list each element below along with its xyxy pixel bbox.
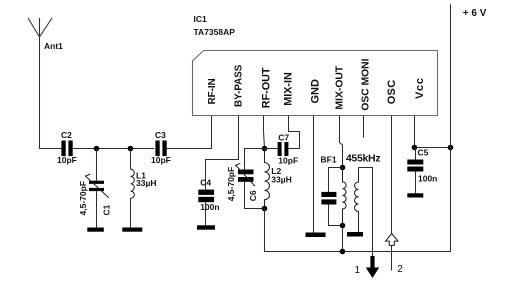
ground (GND pin) [306, 233, 326, 238]
inductor L1 [131, 169, 135, 198]
wire RF-OUT to tank node [264, 116, 265, 149]
node Vcc pin [412, 145, 418, 151]
node tank bottom [262, 206, 268, 212]
wire BF1 cap branch bottom [329, 205, 343, 226]
node +6V rail [448, 145, 454, 151]
node BF1 bottom [340, 223, 346, 229]
svg-text:10pF: 10pF [278, 156, 298, 166]
trimmer capacitor C6 [238, 170, 254, 182]
wire node to L1 [130, 149, 132, 170]
wire BF1 secondary to output 1 [359, 168, 373, 257]
svg-text:MIX-OUT: MIX-OUT [335, 65, 346, 110]
wire pin GND to ground [313, 116, 315, 233]
svg-text:C1: C1 [102, 204, 112, 215]
svg-text:Ant1: Ant1 [44, 41, 63, 51]
wire BY-PASS to C4 [206, 116, 239, 190]
svg-text:4,5-70pF: 4,5-70pF [78, 181, 88, 216]
stub OSC MONI [363, 116, 365, 138]
svg-text:TA7358AP: TA7358AP [194, 27, 236, 37]
svg-text:10pF: 10pF [151, 155, 171, 165]
wire C5 to ground [415, 172, 417, 194]
wire tank top to C6 [245, 149, 265, 170]
wire BF1 bottom to rail [342, 226, 344, 252]
capacitor C3 [155, 141, 166, 157]
svg-text:C6: C6 [248, 190, 258, 201]
wire antenna to C2 [40, 37, 62, 149]
svg-text:GND: GND [309, 79, 321, 104]
svg-text:C2: C2 [61, 130, 72, 140]
ground (C5) [407, 193, 423, 197]
svg-text:BF1: BF1 [321, 155, 337, 165]
wire Vcc pin to supply node [415, 116, 451, 148]
capacitor C5 [407, 160, 423, 172]
node BF1 rail junction [340, 249, 346, 255]
svg-text:100n: 100n [200, 202, 219, 212]
node junction L1 tap [128, 146, 134, 152]
svg-text:C3: C3 [155, 130, 166, 140]
svg-text:10pF: 10pF [57, 155, 77, 165]
wire tank bottom to supply rail [265, 209, 451, 252]
ground (BF1 secondary) [347, 232, 363, 237]
svg-text:33µH: 33µH [271, 174, 292, 184]
svg-text:4,5-70pF: 4,5-70pF [226, 167, 236, 202]
capacitor C4 [198, 190, 214, 203]
svg-text:C5: C5 [418, 148, 429, 158]
trimmer capacitor C1 [89, 181, 104, 191]
svg-text:1: 1 [355, 265, 361, 276]
ground (C1) [87, 228, 104, 232]
wire C7 to pin MIX-IN [288, 116, 299, 149]
svg-text:OSC: OSC [386, 80, 398, 105]
ground (C4) [197, 225, 215, 229]
svg-text:33µH: 33µH [136, 178, 157, 188]
wire C2 to C3 [73, 148, 155, 150]
wire C1 to ground [96, 191, 98, 227]
wire below arrow 2 [391, 245, 393, 270]
wire C4 to ground [205, 202, 207, 225]
svg-text:BY-PASS: BY-PASS [233, 64, 244, 107]
node tank top [262, 146, 268, 152]
wire MIX-OUT to BF1 [340, 116, 343, 168]
capacitor inside BF1 [321, 192, 336, 205]
svg-text:RF-OUT: RF-OUT [260, 67, 272, 108]
wire L1 to ground [130, 198, 132, 227]
arrow output 1 [366, 256, 379, 278]
svg-text:2: 2 [397, 264, 403, 275]
svg-text:OSC MONI: OSC MONI [360, 58, 371, 110]
svg-text:C7: C7 [278, 132, 289, 142]
svg-text:RF-IN: RF-IN [207, 78, 218, 104]
wire C5 top [415, 148, 417, 160]
inductor BF1 primary [343, 168, 347, 226]
inductor BF1 secondary [355, 168, 359, 233]
op-amp/IC U1 TA7358AP box [193, 51, 438, 116]
wire C6 bottom [245, 182, 265, 209]
svg-text:Vcc: Vcc [414, 77, 426, 99]
capacitor C2 [61, 141, 72, 157]
wire +6V supply line [450, 4, 452, 251]
antenna Ant1 [28, 18, 52, 37]
capacitor C7 [265, 148, 278, 150]
wire C3 to pin RF-IN [167, 116, 212, 149]
node BF1 top [340, 165, 346, 171]
wire OSC to arrow 2 [391, 116, 393, 234]
svg-text:+ 6 V: + 6 V [463, 8, 487, 19]
node junction C1 tap [94, 146, 100, 152]
wire BF1 cap branch top [329, 168, 343, 192]
arrow input 2 (hollow) [386, 234, 398, 246]
inductor L2 [265, 149, 270, 209]
svg-text:C4: C4 [200, 177, 211, 187]
wire node to trimmer C1 [96, 149, 98, 181]
svg-text:IC1: IC1 [194, 14, 208, 24]
ground (L1) [122, 228, 142, 232]
svg-text:MIX-IN: MIX-IN [283, 72, 295, 106]
svg-text:455kHz: 455kHz [346, 153, 380, 165]
svg-text:100n: 100n [418, 173, 437, 183]
